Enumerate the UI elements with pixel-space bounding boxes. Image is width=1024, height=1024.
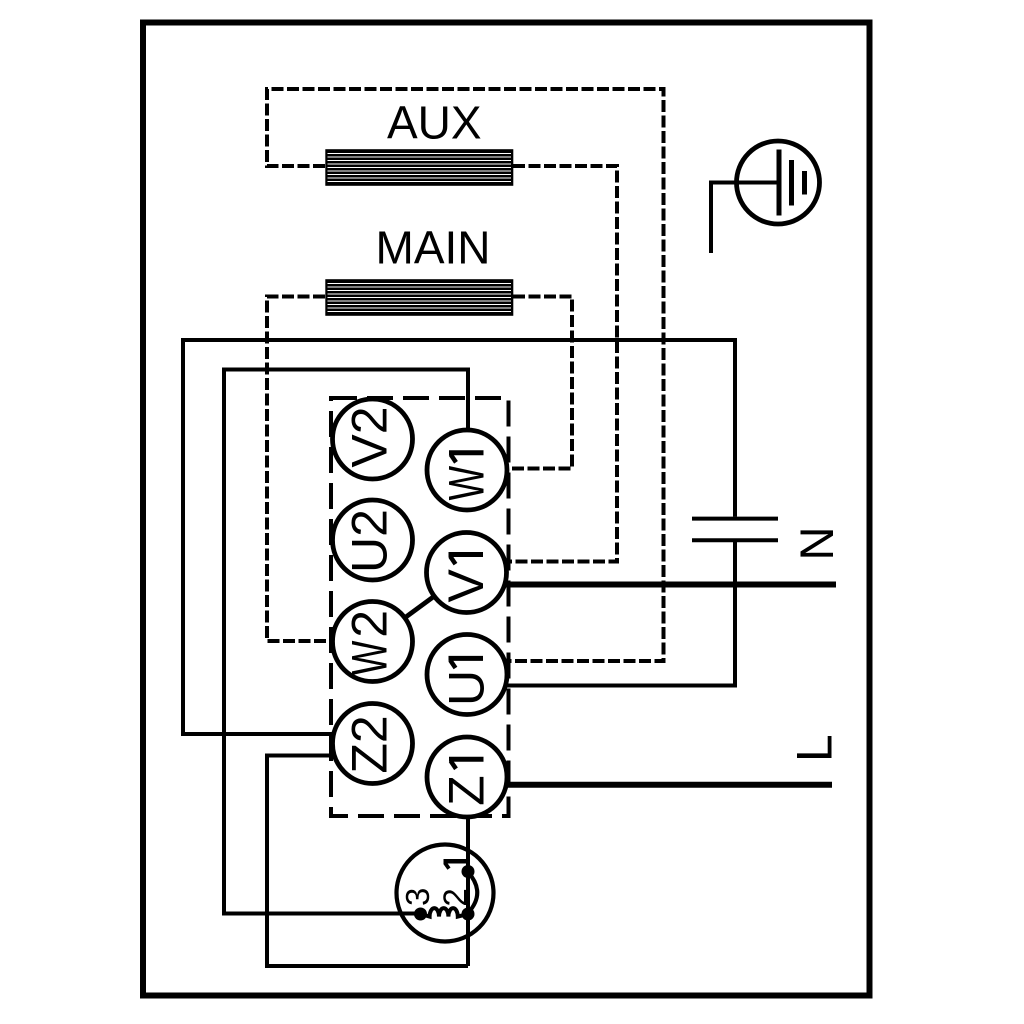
svg-text:V2: V2 [342, 406, 398, 467]
svg-text:U: U [439, 670, 495, 706]
wire AUX right to V1 [467, 166, 618, 562]
wire to ground [711, 183, 777, 254]
pin label 1 [444, 859, 470, 864]
wire thermal node 3 to W1 [224, 370, 468, 914]
terminal U2 [333, 500, 413, 580]
thermal protector [397, 845, 494, 942]
link W2 to V1 [373, 573, 467, 642]
node 3 [414, 908, 427, 921]
terminal V2 [333, 399, 413, 479]
wire Z2 to thermal bottom [267, 756, 468, 967]
wire N [467, 582, 837, 588]
wire AUX loop to U1 [267, 89, 664, 661]
terminal block outline [331, 398, 509, 816]
wire MAIN left to W2 [267, 297, 373, 642]
wire MAIN right to W1 [467, 297, 572, 469]
svg-text:Z: Z [439, 775, 495, 806]
svg-text:MAIN: MAIN [376, 221, 491, 273]
svg-text:U2: U2 [342, 509, 398, 573]
wire Z1 to thermal node 1 [466, 777, 470, 966]
terminal V1 [427, 533, 507, 613]
svg-text:AUX: AUX [387, 97, 482, 149]
terminal W1 [427, 430, 507, 510]
terminal W2 [333, 602, 413, 682]
winding MAIN [325, 279, 513, 316]
svg-text:V: V [438, 568, 494, 602]
terminal Z2 [333, 704, 413, 784]
svg-text:L: L [787, 734, 843, 762]
svg-text:W: W [342, 640, 398, 675]
ground electrode symbol [737, 141, 820, 224]
svg-text:2: 2 [342, 610, 398, 638]
capacitor C [692, 519, 778, 541]
enclosure frame [143, 23, 870, 996]
svg-text:Z2: Z2 [342, 715, 398, 773]
svg-text:2: 2 [437, 888, 474, 906]
heater element 2-3 [421, 908, 469, 917]
node 1 [462, 865, 475, 878]
wire Z2 to capacitor top [183, 340, 735, 734]
switch contact 1-2 [468, 872, 477, 913]
svg-text:3: 3 [399, 888, 436, 906]
wire U1 to capacitor bottom [467, 542, 735, 686]
terminal U1 [427, 635, 507, 715]
svg-text:W: W [439, 465, 495, 500]
wire L [467, 782, 832, 788]
winding AUX [325, 149, 513, 186]
svg-text:N: N [790, 527, 843, 561]
terminal Z1 [427, 737, 507, 817]
node 2 [462, 908, 475, 921]
